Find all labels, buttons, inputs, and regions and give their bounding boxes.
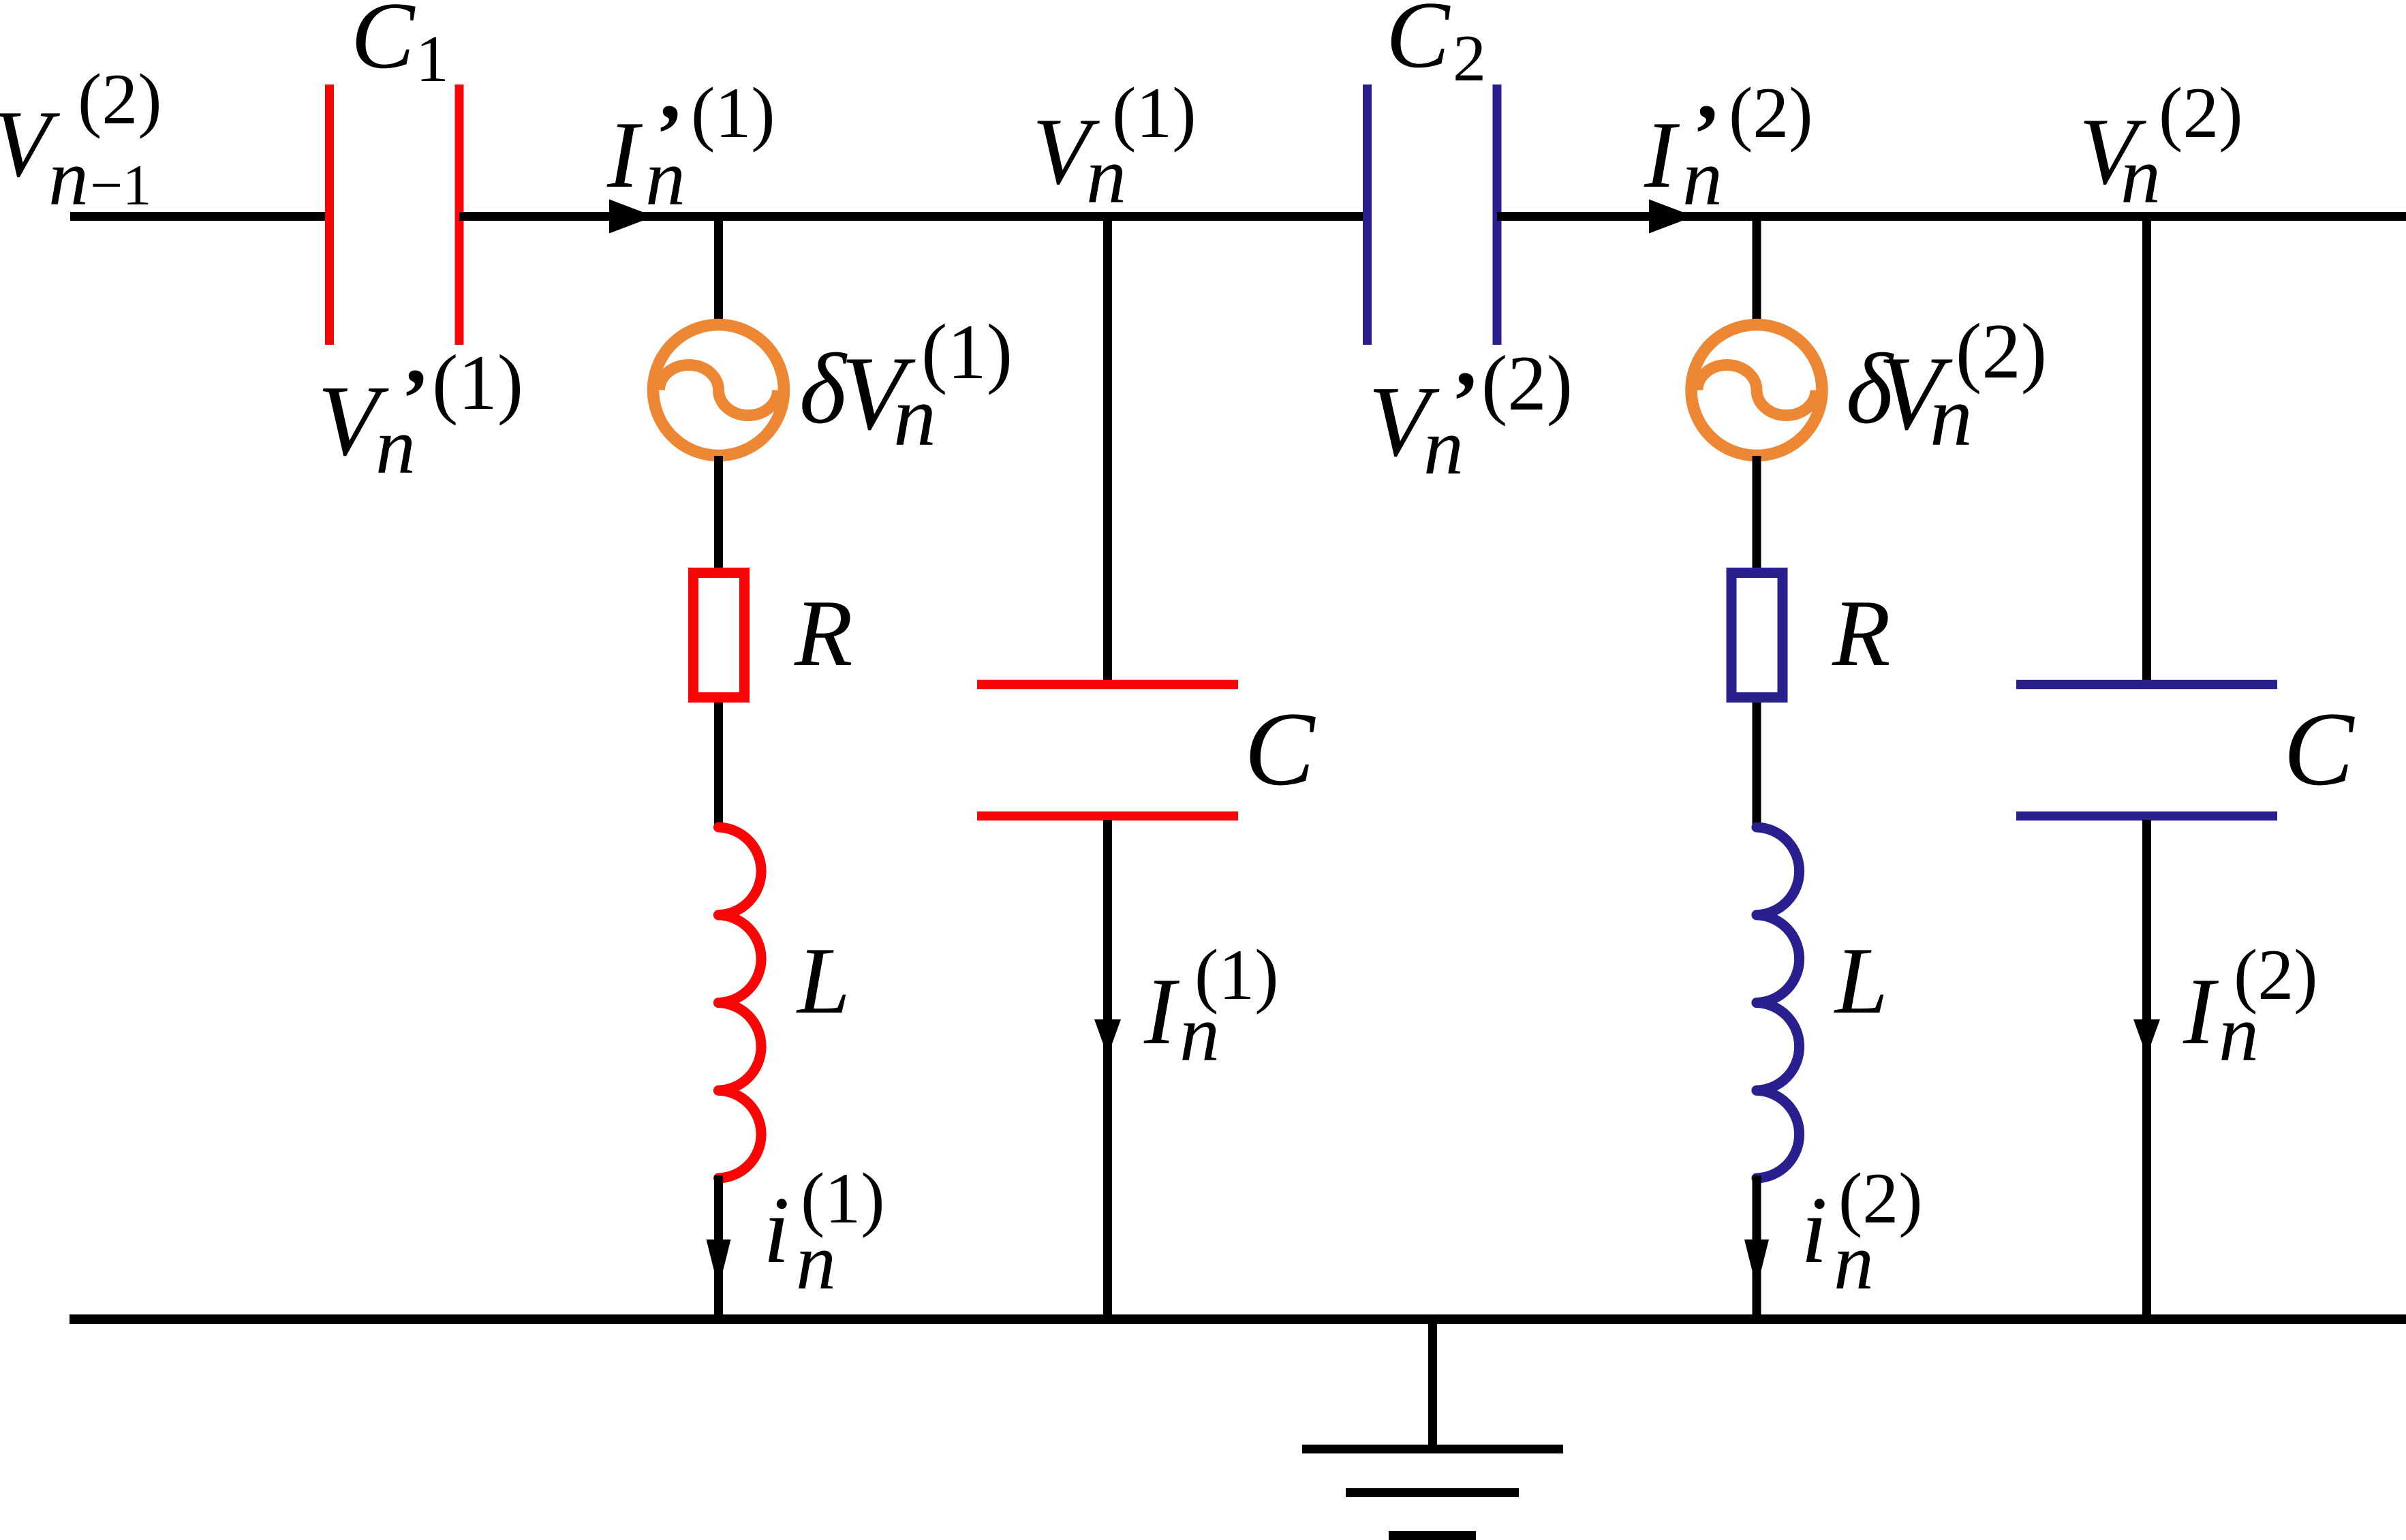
resistor R (branch 1) [694,573,745,698]
svg-text:(1): (1) [432,339,523,426]
label I_n^{(1)} [1143,935,1279,1078]
wire: branch 4 upper [2142,212,2151,681]
svg-text:−1: −1 [90,153,151,217]
svg-text:(1): (1) [921,309,1013,395]
label i_n^{(1)} [763,1158,885,1306]
svg-text:(1): (1) [801,1158,885,1238]
arrow I_n'^{(1)} [609,200,654,234]
svg-text:(2): (2) [2159,73,2243,153]
svg-text:L: L [796,928,850,1034]
wire: top rail left segment [70,212,329,221]
svg-text:’: ’ [656,87,683,181]
svg-text:i: i [1801,1177,1827,1283]
label I_n'^{(2)} [1644,73,1813,222]
svg-text:(2): (2) [1729,73,1813,153]
wire: top rail right segment [1497,212,2406,221]
capacitor C2 [1368,84,1498,345]
svg-text:I: I [1143,959,1180,1064]
svg-text:n: n [48,133,89,222]
svg-text:L: L [1834,928,1888,1034]
capacitor C shunt (branch 2) [977,685,1238,816]
svg-text:I: I [606,102,643,208]
wire: branch 1 lower [714,1175,723,1319]
svg-text:’: ’ [1451,354,1479,448]
svg-text:(2): (2) [78,59,162,139]
wire: branch 4 lower [2142,820,2151,1319]
svg-text:I: I [1644,102,1680,208]
label delta-V_n^(1) [799,309,1013,464]
wire: branch 3 R to L [1753,703,1761,830]
svg-text:1: 1 [416,22,449,96]
svg-text:(1): (1) [691,73,775,153]
ground [1302,1319,1563,1536]
node V_n'^{(1)} label [318,339,523,491]
wire: branch 3 lower [1753,1175,1761,1319]
label C2 [1386,0,1486,95]
svg-text:(1): (1) [1194,935,1279,1015]
label delta-V_n^(2) [1846,308,2047,464]
arrow i_n^{(2)} [1744,1239,1769,1289]
label i_n^{(2)} [1801,1158,1923,1306]
arrow i_n^{(1)} [707,1239,731,1289]
node V_n'^{(2)} label [1368,340,1573,491]
svg-text:n: n [2120,131,2161,220]
svg-text:i: i [763,1177,790,1283]
label I_n^{(2)} [2183,935,2318,1078]
wire: branch 1 source to R [714,456,723,572]
svg-text:’: ’ [1693,87,1721,181]
svg-text:’: ’ [401,352,429,445]
node V_n^{(2)} label [2079,73,2243,220]
wire: bottom ground bus [70,1314,2406,1324]
inductor L (branch 3) [1757,827,1800,1178]
AC source delta-V_n^(1) [653,325,784,456]
svg-text:C: C [1386,0,1451,88]
svg-text:R: R [794,581,853,686]
wire: branch 1 R to L [714,703,723,830]
svg-text:I: I [2183,959,2219,1064]
arrow I_n'^{(2)} [1649,200,1694,234]
wire: branch 3 upper [1753,212,1761,320]
AC source delta-V_n^(2) [1691,325,1822,456]
svg-text:C: C [2283,690,2355,807]
svg-text:C: C [1244,690,1316,807]
svg-text:(1): (1) [1112,73,1197,153]
capacitor C1 [330,84,460,345]
svg-text:(2): (2) [1481,340,1573,427]
node V_{n-1}^{(2)} label [0,59,162,222]
label I_n'^{(1)} [606,73,775,222]
label C1 [351,0,449,96]
svg-text:2: 2 [1453,22,1486,95]
wire: branch 2 upper [1103,212,1112,681]
svg-text:(2): (2) [2234,935,2318,1015]
wire: branch 2 lower [1103,820,1112,1319]
capacitor C shunt (branch 4) [2016,685,2277,816]
inductor L (branch 1) [719,827,762,1178]
svg-text:C: C [351,0,416,89]
wire: top rail middle segment [459,212,1368,221]
svg-text:(2): (2) [1838,1158,1923,1238]
wire: branch 3 source to R [1753,456,1761,572]
svg-text:(2): (2) [1956,308,2047,395]
wire: branch 1 upper [714,212,723,320]
arrow I_n^{(2)} [2133,1019,2160,1056]
svg-text:R: R [1832,581,1891,686]
node V_n^{(1)} label [1032,73,1197,220]
resistor R (branch 3) [1731,573,1783,698]
arrow I_n^{(1)} [1094,1019,1121,1056]
